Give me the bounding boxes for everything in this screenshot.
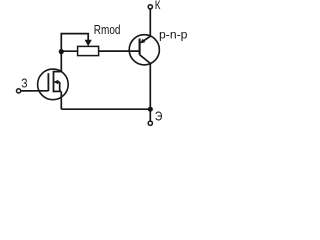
resistor Rmod body xyxy=(78,46,99,55)
svg-text:p-n-p: p-n-p xyxy=(159,28,188,42)
wire K terminal down xyxy=(149,9,151,36)
MOSFET channel bar xyxy=(53,71,55,93)
node A junction dot xyxy=(59,49,64,54)
wire drain up to node A xyxy=(60,52,62,72)
wire gate lead xyxy=(21,90,48,92)
svg-text:Rmod: Rmod xyxy=(94,24,121,37)
wire collector down to node B xyxy=(149,63,151,109)
MOSFET substrate-to-source link xyxy=(59,82,61,91)
wire node B to Э terminal xyxy=(149,109,151,121)
wire bottom run xyxy=(61,108,150,110)
MOSFET substrate lead xyxy=(57,81,60,83)
wire source down xyxy=(60,91,62,109)
transistor VT2 envelope xyxy=(129,35,159,65)
svg-text:З: З xyxy=(21,77,27,91)
svg-text:К: К xyxy=(155,0,161,12)
MOSFET source stub xyxy=(54,90,62,92)
transistor emitter lead xyxy=(142,36,150,42)
node B junction dot xyxy=(148,107,153,112)
wire gate-modulation loop xyxy=(61,34,88,52)
transistor base bar xyxy=(139,39,141,55)
transistor emitter arrowhead (p-n-p) xyxy=(140,39,146,44)
MOSFET gate bar xyxy=(47,73,49,91)
transistor collector lead xyxy=(140,55,151,64)
terminal Э xyxy=(148,121,152,125)
MOSFET drain stub xyxy=(54,71,62,73)
modulation arrowhead onto Rmod xyxy=(85,40,92,47)
MOSFET VT1 envelope xyxy=(38,69,69,100)
MOSFET substrate arrowhead (n-channel) xyxy=(53,80,58,85)
terminal З (gate) xyxy=(17,89,21,93)
svg-text:Э: Э xyxy=(155,109,163,123)
wire node A to resistor xyxy=(61,50,77,52)
terminal К xyxy=(148,5,152,9)
wire resistor to base xyxy=(99,50,140,52)
